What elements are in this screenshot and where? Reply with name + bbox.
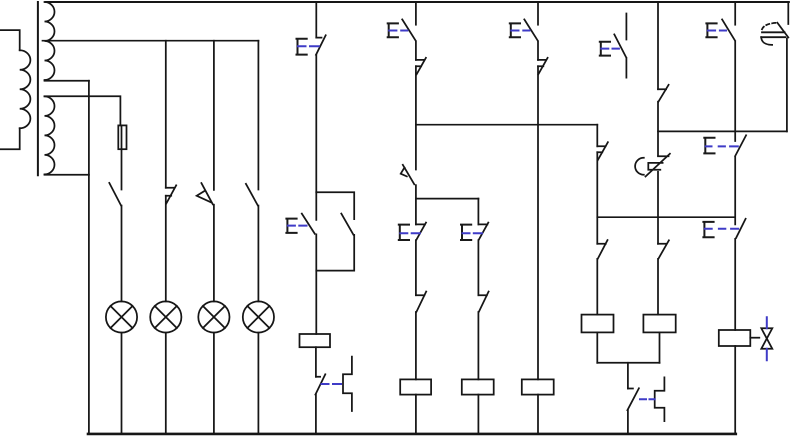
contact NC rung5 bbox=[658, 85, 669, 102]
wire lamp branch 2 to lamp bbox=[165, 196, 167, 302]
wire lamp 1 bottom bbox=[121, 333, 123, 434]
dashed link E rung2 top bbox=[389, 30, 407, 32]
wire coil K2 bottom bbox=[415, 395, 417, 434]
wire rung6 top bbox=[734, 2, 736, 25]
wire secondary lower top tap to fuse bbox=[45, 96, 121, 125]
wire rung2 split bbox=[416, 198, 479, 200]
lamp H2 bbox=[150, 301, 181, 332]
wire coil K1 bottom bbox=[315, 347, 317, 377]
wire rung2 c bbox=[415, 185, 417, 198]
latch mechanism rung1 bbox=[343, 357, 352, 411]
coil K2 bbox=[400, 379, 431, 394]
pushbutton NC E rung2a bbox=[416, 223, 426, 240]
wire coil K3 bottom bbox=[477, 395, 479, 434]
wire rung1 to coil bbox=[315, 234, 317, 334]
wire rung6 b bbox=[734, 157, 736, 224]
contact lamp branch 3 with triangle actuator bbox=[197, 183, 213, 204]
label E rung6 low bbox=[703, 222, 713, 237]
wire common vertical bbox=[88, 81, 90, 434]
wire rung5 a bbox=[657, 102, 659, 156]
wire rung3 long bbox=[537, 66, 539, 379]
horn symbol bbox=[762, 31, 785, 33]
wire coil K5 bottom bbox=[596, 332, 598, 362]
valve Y1 body bbox=[761, 328, 772, 349]
switch E floating bbox=[614, 14, 626, 78]
wire rung1 bypass loop bbox=[316, 192, 354, 270]
wire bottom return rail bbox=[88, 433, 736, 436]
wire rung2b down bbox=[477, 199, 479, 225]
E letters (black part) bbox=[286, 23, 716, 240]
wire right edge lower bbox=[786, 38, 788, 131]
contact NC with triangle rung3 bbox=[538, 58, 548, 75]
valve Y1 pilot lines bbox=[766, 317, 768, 360]
contact NC time delay rung5 bbox=[646, 154, 670, 177]
wire rung3 a bbox=[537, 42, 539, 60]
wire coils merge bar bbox=[597, 362, 659, 364]
contact NC latch release rung4 bbox=[627, 388, 639, 410]
wire rung6 c bbox=[734, 239, 736, 330]
wire coil K7 bottom bbox=[734, 346, 736, 434]
wire secondary upper bottom tap to common bbox=[45, 80, 89, 82]
wire rung5 to coil bbox=[657, 259, 659, 315]
contact NC with triangle rung2 bbox=[416, 58, 426, 75]
lamp H3 bbox=[198, 301, 229, 332]
contact NC rung2a bbox=[416, 292, 426, 312]
wire rung4 mid bbox=[596, 152, 598, 244]
label E rung2b bbox=[461, 225, 471, 240]
wire rung1 bottom bbox=[315, 395, 317, 434]
pushbutton NO E rung1 start bbox=[302, 192, 317, 234]
contact NC lamp branch 2 bbox=[166, 185, 176, 203]
contact NO bypass self-hold bbox=[341, 214, 353, 235]
wire rung2b to coil bbox=[477, 312, 479, 379]
wire top supply rail bbox=[46, 1, 789, 3]
pushbutton NC E rung2b bbox=[478, 223, 488, 240]
switch E dashed rung6 lower bbox=[736, 219, 746, 238]
dashed link E rung6 mid bbox=[706, 145, 738, 147]
fuse F1 bbox=[121, 125, 123, 149]
wire rung2a to coil bbox=[415, 312, 417, 379]
wire lamp branch 1 upper bbox=[121, 149, 123, 189]
contact NC rung5 lower bbox=[658, 240, 669, 258]
coil K4 bbox=[522, 379, 554, 394]
contact NO lamp branch 1 bbox=[109, 183, 121, 206]
label E rung3 top bbox=[510, 23, 520, 37]
wire coil K6 bottom bbox=[659, 332, 661, 362]
wire latch branch down bbox=[627, 363, 629, 389]
wire rung5 b bbox=[657, 172, 659, 244]
blue actuator dashes bbox=[288, 31, 767, 400]
pushbutton NO E rung3 bbox=[524, 19, 537, 40]
dashed link E rung2a bbox=[400, 232, 420, 234]
dashed link latch rung1 bbox=[322, 383, 342, 385]
wire lamp 3 bottom bbox=[213, 333, 215, 434]
pushbutton NC E rung1 bbox=[316, 35, 326, 55]
transformer primary winding bbox=[0, 30, 20, 149]
wire rail y=217.2 bbox=[597, 216, 735, 218]
wire rung6 a bbox=[734, 42, 736, 142]
wire lamp branch 3 upper bbox=[213, 41, 215, 190]
label E rung1 top bbox=[297, 39, 307, 55]
label E rung6 top bbox=[706, 23, 716, 37]
wire lamp branch 2 upper bbox=[165, 41, 167, 188]
wire rung2a bbox=[415, 240, 417, 295]
contact NC rung4 bbox=[597, 240, 607, 258]
contact NC with triangle rung4 bbox=[597, 142, 608, 160]
contact with triangle actuator rung2 bbox=[401, 165, 415, 185]
label E rung2 top bbox=[388, 23, 398, 37]
pushbutton NO E rung2 bbox=[402, 19, 415, 40]
dashed link E rung6 low bbox=[705, 228, 738, 230]
wire lamp 2 bottom bbox=[165, 333, 167, 434]
label E rung1 start bbox=[286, 219, 296, 233]
coil K1 bbox=[300, 334, 331, 347]
lamp H1 bbox=[106, 301, 137, 332]
wire rung4 top bbox=[596, 125, 598, 147]
dashed link E rung2b bbox=[463, 232, 482, 234]
wire coil K7 to valve bbox=[750, 337, 759, 339]
contact NC latch release rung1 bbox=[315, 374, 325, 394]
dashed link E rung3 top bbox=[511, 30, 529, 32]
transformer core bbox=[37, 2, 39, 175]
wire rung2 b bbox=[415, 66, 417, 169]
wire rung5 top bbox=[657, 2, 659, 89]
wire rung2a down bbox=[415, 199, 417, 225]
wire lamp 4 bottom bbox=[257, 333, 259, 434]
wire rung2 top bbox=[415, 2, 417, 25]
coil K7 bbox=[719, 330, 751, 346]
dashed link latch rung4 bbox=[640, 398, 655, 400]
lamp H4 bbox=[243, 301, 274, 332]
switch E dashed rung6 upper bbox=[735, 135, 746, 156]
wire latch branch bottom bbox=[627, 410, 629, 434]
wire rung4 to coil bbox=[596, 259, 598, 315]
dashed link E rung6 top bbox=[708, 30, 726, 32]
dashed link E rung1 top bbox=[298, 45, 319, 47]
label E rung2a bbox=[399, 225, 409, 240]
wire rung2 a bbox=[415, 42, 417, 60]
label E floating bbox=[600, 42, 610, 56]
latch mechanism rung4 bbox=[655, 377, 665, 421]
dashed link E floating bbox=[601, 48, 619, 50]
wire rung1 middle bbox=[315, 55, 317, 192]
wire lamp branch 1 to lamp bbox=[121, 206, 123, 302]
wire right edge top bbox=[787, 2, 789, 24]
contact NC rung2b bbox=[478, 292, 488, 312]
wire secondary lower bottom tap bbox=[45, 174, 89, 176]
wire cross rail y=124.7 bbox=[416, 124, 597, 126]
coil K6 bbox=[643, 315, 675, 333]
wire rung1 top bbox=[315, 2, 317, 38]
contact NO lamp branch 4 bbox=[246, 184, 258, 206]
transformer secondary winding upper bbox=[45, 2, 55, 80]
wire rung2b bbox=[477, 240, 479, 295]
coil K3 bbox=[462, 379, 494, 394]
wire coil K4 bottom bbox=[537, 395, 539, 434]
transformer secondary winding lower bbox=[45, 96, 55, 174]
wire lamp branch 4 to lamp bbox=[257, 206, 259, 302]
label E rung6 mid bbox=[704, 138, 714, 154]
dashed link E rung1 start bbox=[288, 225, 307, 227]
wire secondary rail y=40.7 bbox=[43, 40, 259, 42]
wire rail y=131.4 bbox=[658, 130, 787, 132]
wire lamp branch 3 to lamp bbox=[213, 205, 215, 302]
wire rung3 top bbox=[537, 2, 539, 25]
coil K5 bbox=[582, 315, 614, 333]
wire lamp branch 4 upper bbox=[257, 41, 259, 190]
pushbutton NO E rung6 bbox=[722, 19, 735, 40]
